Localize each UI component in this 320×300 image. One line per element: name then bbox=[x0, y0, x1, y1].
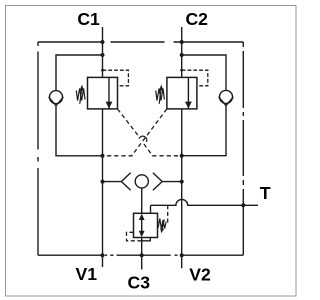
junction node C1-boundary bbox=[101, 40, 105, 44]
junction node CB2 pilot tap bbox=[180, 69, 183, 72]
junction node V2-check return bbox=[180, 154, 184, 158]
junction node V1-check return bbox=[101, 154, 105, 158]
CB2 spring adjust arrow bbox=[159, 89, 161, 104]
junction node C2-check branch bbox=[180, 53, 184, 57]
shuttle valve left seat bbox=[121, 173, 130, 191]
shuttle valve left line bbox=[103, 181, 122, 183]
counterbalance valve CB1 body bbox=[88, 77, 118, 109]
check valve left circle bbox=[50, 91, 63, 104]
CB1 spring adjust arrow bbox=[80, 89, 82, 104]
RV spring bbox=[158, 219, 166, 230]
CB2 flow line bbox=[187, 77, 189, 108]
CB2 spring bbox=[156, 89, 165, 101]
RV up arrowhead bbox=[139, 214, 145, 220]
junction node C3-bottom boundary bbox=[140, 253, 144, 257]
shuttle valve right seat bbox=[153, 173, 162, 191]
junction node CB1 pilot tap bbox=[101, 69, 104, 72]
check valve left seat bbox=[49, 97, 64, 106]
junction node T-boundary bbox=[241, 203, 245, 207]
CB1 spring bbox=[76, 89, 85, 101]
CB1 flow arrowhead bbox=[106, 102, 113, 109]
RV drain stub bbox=[142, 238, 151, 241]
shuttle valve ball bbox=[135, 175, 148, 188]
RV vent dashed from tank line bbox=[167, 205, 169, 225]
CB1 remote pilot dashed diagonal to V2 bbox=[118, 109, 182, 156]
junction node C1-check branch bbox=[101, 53, 105, 57]
shuttle valve right line bbox=[162, 181, 182, 183]
RV flow line with double arrow bbox=[141, 216, 143, 235]
CB2 internal pilot dashed loop bbox=[182, 70, 208, 86]
wire tank line to T with hop over V2 bbox=[151, 199, 259, 205]
junction node V2-bottom boundary bbox=[180, 253, 184, 257]
wire right check return bbox=[182, 106, 226, 156]
relief valve RV body bbox=[134, 213, 158, 237]
CB2 flow arrowhead bbox=[185, 102, 192, 109]
RV spring adjust arrow bbox=[162, 220, 164, 230]
svg-text:V1: V1 bbox=[76, 264, 98, 284]
RV down arrowhead bbox=[139, 231, 145, 237]
counterbalance valve CB2 body bbox=[167, 77, 197, 109]
pilot line crossover hop bbox=[139, 136, 147, 142]
svg-text:C3: C3 bbox=[128, 273, 151, 293]
enclosure boundary bottom bbox=[38, 254, 243, 256]
junction node C2-boundary bbox=[180, 40, 184, 44]
wire shuttle output down bbox=[141, 188, 143, 213]
junction node V1-shuttle bbox=[101, 180, 105, 184]
svg-text:C1: C1 bbox=[77, 9, 100, 29]
wire C2 main line bbox=[181, 27, 183, 77]
RV pilot dashed loop lower left bbox=[127, 232, 142, 241]
wire V2 main line below valve bbox=[181, 109, 183, 268]
CB1 internal pilot dashed loop bbox=[103, 70, 129, 86]
enclosure boundary top bbox=[38, 41, 243, 43]
wire RV outlet riser bbox=[150, 205, 152, 213]
check valve right circle bbox=[220, 90, 233, 103]
wire right check branch top bbox=[182, 55, 226, 90]
wire left check return bbox=[56, 106, 103, 156]
wire V1 main line below valve bbox=[102, 109, 104, 267]
CB2 remote pilot dashed diagonal to V1 bbox=[103, 109, 167, 156]
junction node V1-bottom boundary bbox=[101, 253, 105, 257]
check valve right seat bbox=[219, 97, 234, 106]
svg-text:C2: C2 bbox=[185, 9, 208, 29]
wire left check branch top bbox=[56, 55, 103, 90]
CB1 flow line bbox=[108, 77, 110, 108]
wire C1 main line bbox=[102, 27, 104, 77]
junction node V2-shuttle bbox=[180, 180, 184, 184]
wire RV inlet to C3 bbox=[141, 238, 143, 270]
enclosure boundary right bbox=[242, 42, 244, 255]
svg-text:V2: V2 bbox=[189, 265, 211, 285]
enclosure boundary left bbox=[37, 42, 39, 255]
svg-text:T: T bbox=[260, 183, 271, 203]
